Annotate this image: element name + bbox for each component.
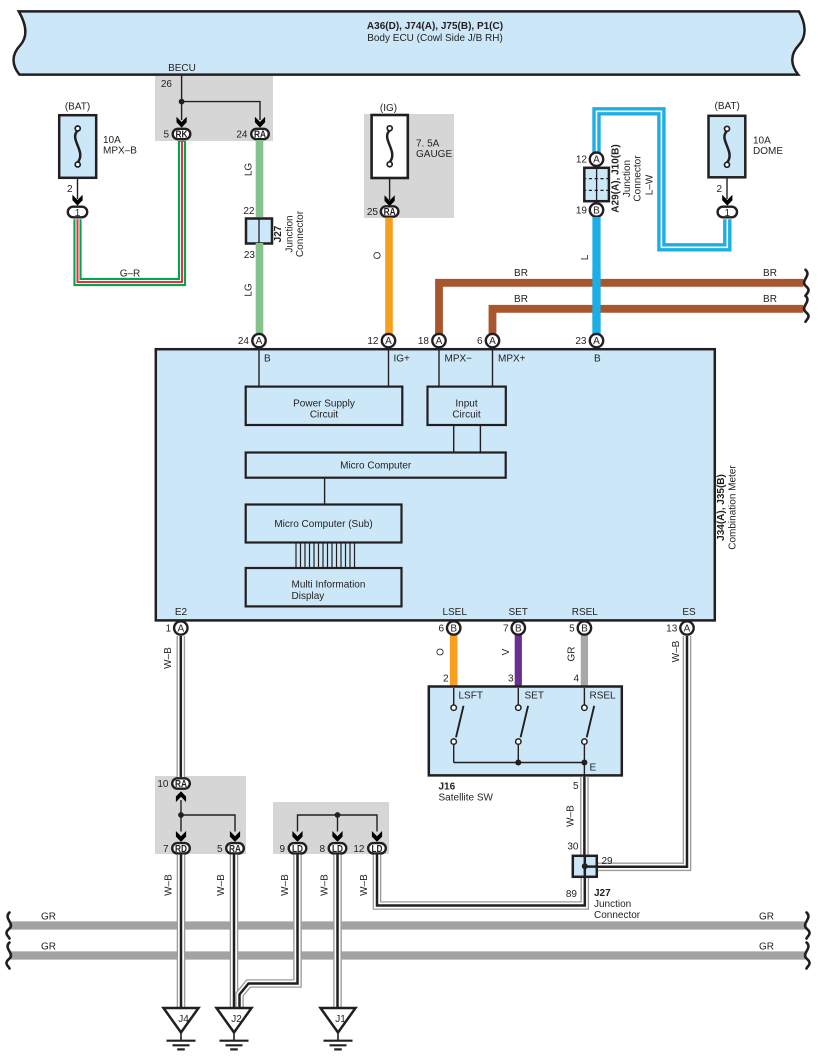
internal wire 12 to power supply	[388, 349, 390, 388]
svg-text:6: 6	[477, 336, 483, 347]
wire V to satellite switch	[515, 635, 522, 687]
svg-text:LD: LD	[292, 844, 303, 855]
svg-text:5: 5	[217, 844, 223, 855]
svg-text:7: 7	[163, 844, 169, 855]
wire GR bus upper	[11, 921, 805, 929]
svg-text:GR: GR	[759, 942, 774, 953]
svg-text:GR: GR	[41, 942, 56, 953]
splice RA pin 5	[217, 843, 244, 855]
svg-text:Connector: Connector	[594, 910, 641, 921]
wire GR bus lower	[11, 951, 805, 959]
svg-text:W–B: W–B	[359, 874, 370, 896]
splice LD pin 8	[319, 843, 346, 855]
svg-text:A: A	[489, 336, 496, 347]
wire W-B from RD7 to ground J4	[177, 855, 186, 1010]
svg-text:6: 6	[438, 624, 444, 635]
internal wire 18 to input circuit	[438, 349, 440, 388]
fuse 10A MPX-B	[59, 102, 137, 178]
satellite switch J16	[429, 687, 622, 804]
svg-text:BR: BR	[514, 268, 528, 279]
svg-text:(BAT): (BAT)	[65, 102, 90, 113]
svg-text:RSEL: RSEL	[590, 691, 617, 702]
shaded junction-block background (BECU area)	[155, 75, 273, 141]
wire W-B from ES to J27	[598, 636, 687, 867]
wire from BECU to splice	[181, 75, 183, 120]
pin 24 A (meter)	[238, 334, 266, 347]
svg-text:A29(A), J10(B): A29(A), J10(B)	[611, 144, 622, 212]
svg-text:Junction: Junction	[622, 160, 633, 197]
svg-text:2: 2	[716, 184, 722, 195]
svg-text:Power Supply: Power Supply	[293, 399, 355, 410]
svg-text:O: O	[436, 648, 447, 656]
switch RSEL	[582, 688, 616, 763]
svg-text:Display: Display	[292, 591, 325, 602]
multi information display block	[246, 568, 402, 606]
arrow into LD12	[372, 831, 382, 842]
ground J4	[164, 1008, 199, 1049]
svg-text:7: 7	[503, 624, 509, 635]
svg-text:Combination Meter: Combination Meter	[728, 465, 739, 550]
svg-text:23: 23	[575, 336, 587, 347]
svg-text:RA: RA	[384, 207, 396, 218]
svg-text:A: A	[684, 624, 691, 635]
splice LD pin 9	[279, 843, 306, 855]
ground J1	[321, 1008, 356, 1049]
arrow into connector 1	[72, 195, 82, 206]
svg-text:E: E	[590, 763, 597, 774]
wire O (orange)	[385, 218, 393, 336]
arrow into RA5	[230, 831, 240, 842]
input circuit block	[428, 387, 506, 425]
svg-text:A: A	[436, 336, 443, 347]
svg-text:Multi Information: Multi Information	[292, 580, 366, 591]
splice RA pin 25	[367, 206, 399, 218]
pin 12 A (meter)	[367, 334, 395, 347]
svg-text:J34(A), J35(B): J34(A), J35(B)	[716, 474, 727, 541]
arrow into RA25	[385, 195, 395, 206]
svg-text:MPX+: MPX+	[498, 354, 526, 365]
arrow up into RA10	[176, 791, 186, 802]
junction node (LD splice)	[335, 812, 341, 818]
internal wire 24 to power supply	[258, 349, 260, 388]
pin 13 A (meter ES)	[666, 621, 694, 634]
svg-text:Micro Computer (Sub): Micro Computer (Sub)	[274, 519, 372, 530]
svg-text:BR: BR	[763, 268, 777, 279]
svg-text:29: 29	[602, 856, 614, 867]
svg-text:GR: GR	[41, 912, 56, 923]
pin 2 of DOME fuse	[716, 177, 727, 199]
svg-text:4: 4	[573, 674, 579, 685]
svg-text:B: B	[515, 624, 522, 635]
svg-text:W–B: W–B	[566, 805, 577, 827]
svg-text:3: 3	[508, 674, 514, 685]
svg-text:8: 8	[319, 844, 325, 855]
pin 1 A (meter E2)	[165, 621, 187, 634]
svg-text:Connector: Connector	[295, 210, 306, 257]
common bus of J16	[454, 762, 585, 764]
pin 19 B (junction connector)	[576, 203, 603, 216]
svg-text:A: A	[385, 336, 392, 347]
svg-text:Body ECU (Cowl Side J/B RH): Body ECU (Cowl Side J/B RH)	[367, 33, 503, 44]
shaded background around LD splice (bottom right)	[273, 802, 389, 854]
svg-text:Connector: Connector	[633, 155, 644, 202]
svg-text:LSEL: LSEL	[442, 607, 467, 618]
svg-text:B: B	[593, 206, 600, 217]
svg-text:O: O	[373, 251, 384, 259]
svg-text:J16: J16	[439, 782, 456, 793]
svg-text:LD: LD	[332, 844, 343, 855]
wire L (blue)	[592, 217, 600, 335]
LD splice crossbar (gray area right)	[298, 815, 378, 832]
bus A36 Body ECU band	[14, 11, 805, 74]
svg-text:B: B	[581, 624, 588, 635]
svg-text:MPX–B: MPX–B	[103, 146, 137, 157]
switch SET	[516, 688, 544, 763]
svg-text:DOME: DOME	[753, 146, 783, 157]
pin 2 of fuse	[67, 179, 78, 200]
svg-text:23: 23	[244, 250, 256, 261]
svg-text:J27: J27	[273, 225, 284, 242]
svg-text:L–W: L–W	[645, 174, 656, 195]
svg-text:Circuit: Circuit	[452, 410, 481, 421]
svg-text:B: B	[594, 354, 601, 365]
branch wire to RA5	[181, 815, 235, 832]
arrow into LD8	[332, 831, 342, 842]
svg-text:LSFT: LSFT	[459, 691, 483, 702]
switch LSFT	[451, 688, 483, 763]
wire branch to pin 24	[182, 102, 260, 120]
svg-text:5: 5	[569, 624, 575, 635]
arrow into RD7	[176, 831, 186, 842]
svg-text:SET: SET	[525, 691, 544, 702]
svg-text:10A: 10A	[753, 136, 771, 147]
svg-text:Junction: Junction	[594, 899, 631, 910]
svg-text:10: 10	[157, 779, 169, 790]
svg-text:BECU: BECU	[168, 63, 196, 74]
pin 12 A (junction connector)	[576, 153, 603, 166]
svg-text:2: 2	[443, 674, 449, 685]
internal wires input to micro computer	[454, 425, 481, 453]
continuation curl GR upper right	[805, 913, 809, 939]
wire BR lower	[493, 309, 804, 335]
junction node	[179, 99, 185, 105]
svg-text:J27: J27	[594, 888, 611, 899]
svg-text:9: 9	[279, 844, 285, 855]
wire LG lower	[256, 243, 264, 335]
svg-text:A36(D), J74(A), J75(B), P1(C): A36(D), J74(A), J75(B), P1(C)	[367, 21, 503, 32]
connector 1 (MPX-B)	[68, 207, 87, 219]
svg-text:ES: ES	[682, 607, 696, 618]
svg-text:(BAT): (BAT)	[715, 101, 740, 112]
svg-text:J2: J2	[231, 1014, 242, 1025]
svg-text:19: 19	[576, 206, 588, 217]
svg-text:5: 5	[573, 781, 579, 792]
svg-text:Input: Input	[455, 399, 477, 410]
splice RK pin 5	[163, 129, 190, 141]
svg-text:BR: BR	[514, 294, 528, 305]
svg-text:7. 5A: 7. 5A	[416, 139, 440, 150]
svg-text:(IG): (IG)	[380, 103, 397, 114]
svg-text:J1: J1	[335, 1014, 346, 1025]
svg-text:Junction: Junction	[285, 215, 296, 252]
svg-text:W–B: W–B	[280, 874, 291, 896]
svg-text:V: V	[501, 648, 512, 655]
svg-text:30: 30	[567, 842, 579, 853]
svg-text:24: 24	[238, 336, 250, 347]
svg-text:MPX−: MPX−	[445, 354, 473, 365]
wire O to satellite switch	[450, 635, 458, 687]
arrow into RK	[177, 117, 187, 128]
svg-text:A: A	[593, 155, 600, 166]
svg-text:IG+: IG+	[394, 354, 411, 365]
splice RA pin 24	[236, 129, 268, 141]
internal wire E to pin 5	[583, 763, 585, 778]
power supply circuit block	[246, 387, 403, 425]
svg-text:RK: RK	[176, 130, 189, 141]
fuse 10A DOME	[709, 101, 784, 177]
splice LD pin 12	[353, 843, 385, 855]
svg-text:G–R: G–R	[120, 269, 141, 280]
svg-text:GR: GR	[567, 647, 578, 662]
fuse 7.5A GAUGE	[372, 103, 453, 178]
svg-text:25: 25	[367, 207, 379, 218]
svg-text:W–B: W–B	[320, 874, 331, 896]
micro computer (sub) block	[246, 505, 402, 543]
micro computer block	[246, 453, 506, 478]
junction connector A29(A) J10(B)	[583, 144, 644, 212]
svg-text:13: 13	[666, 624, 678, 635]
wire BR upper	[439, 283, 803, 335]
continuation curl GR upper left	[6, 913, 10, 939]
svg-text:18: 18	[418, 336, 430, 347]
junction node (RA splice)	[178, 812, 184, 818]
svg-text:24: 24	[236, 130, 248, 141]
pin 5 B (meter RSEL)	[569, 621, 591, 634]
continuation curl BR lower	[804, 296, 808, 322]
internal wire 6 to input circuit	[492, 349, 494, 388]
svg-text:BR: BR	[763, 294, 777, 305]
internal wire micro computer to sub	[324, 478, 326, 505]
svg-text:2: 2	[67, 184, 73, 195]
connector 1 (DOME)	[718, 207, 737, 219]
svg-text:1: 1	[165, 624, 171, 635]
svg-text:E2: E2	[175, 607, 188, 618]
svg-text:LG: LG	[244, 283, 255, 297]
svg-text:1: 1	[75, 208, 81, 219]
svg-text:GR: GR	[759, 912, 774, 923]
junction connector J27 (22/23)	[243, 206, 306, 261]
pin 6 A (meter)	[477, 334, 499, 347]
shaded background around IG fuse	[364, 114, 454, 218]
svg-text:Circuit: Circuit	[310, 410, 339, 421]
splice RA pin 10 feed (gray area left)	[180, 800, 182, 832]
wire W-B from J27 89 to LD12	[377, 855, 585, 906]
svg-text:J4: J4	[178, 1014, 189, 1025]
svg-text:LD: LD	[372, 844, 383, 855]
combination meter J34/J35	[156, 349, 739, 620]
wire L over BR	[592, 270, 600, 335]
svg-text:12: 12	[353, 844, 365, 855]
svg-text:A: A	[256, 336, 263, 347]
wire W-B from LD9 to ground J2	[240, 855, 298, 1010]
wire GR to satellite switch	[581, 635, 588, 687]
pin line of IG fuse	[389, 178, 391, 200]
continuation curl BR upper	[804, 270, 808, 296]
svg-text:Micro Computer: Micro Computer	[340, 461, 412, 472]
svg-text:RD: RD	[175, 844, 187, 855]
wire W-B from LD8 to ground J1	[333, 855, 342, 1010]
svg-text:89: 89	[566, 889, 578, 900]
splice RD pin 7	[163, 843, 190, 855]
svg-text:Satellite SW: Satellite SW	[439, 793, 494, 804]
svg-text:A: A	[593, 336, 600, 347]
pin 6 B (meter LSEL)	[438, 621, 460, 634]
continuation curl GR lower left	[6, 943, 10, 969]
wire W-B from E2	[177, 636, 186, 777]
pin 23 A (meter)	[575, 334, 603, 347]
pin 18 A (meter)	[418, 334, 446, 347]
svg-text:22: 22	[243, 206, 255, 217]
svg-text:B: B	[450, 624, 457, 635]
svg-text:26: 26	[161, 79, 173, 90]
svg-text:LG: LG	[244, 163, 255, 177]
shaded background around RA/RD splice (bottom left)	[155, 776, 246, 854]
ground J2	[217, 1008, 252, 1049]
svg-text:RSEL: RSEL	[572, 607, 599, 618]
arrow into LD9	[292, 831, 302, 842]
ribbon hatch between sub and display	[296, 543, 355, 569]
svg-text:RA: RA	[175, 779, 187, 790]
wire LG upper	[256, 140, 264, 217]
svg-text:RA: RA	[254, 130, 266, 141]
wire G-R	[78, 141, 183, 282]
svg-text:W–B: W–B	[216, 874, 227, 896]
svg-text:12: 12	[367, 336, 379, 347]
svg-text:L: L	[580, 254, 591, 260]
splice RA pin 10	[157, 778, 189, 790]
junction node (SET)	[515, 760, 521, 766]
svg-text:SET: SET	[508, 607, 527, 618]
svg-text:W–B: W–B	[163, 647, 174, 669]
svg-text:GAUGE: GAUGE	[416, 149, 452, 160]
arrow into RA24	[255, 117, 265, 128]
arrow into connector 1 (DOME)	[722, 195, 732, 206]
junction node E	[581, 760, 587, 766]
continuation curl GR lower right	[805, 943, 809, 969]
svg-text:RA: RA	[229, 844, 241, 855]
wire W-B from J16 E to J27	[580, 777, 589, 855]
svg-text:1: 1	[725, 208, 731, 219]
svg-text:10A: 10A	[103, 135, 121, 146]
wire W-B from RA5 to ground J2	[230, 855, 239, 1010]
junction connector J27 (29/30/89)	[566, 855, 641, 921]
svg-text:12: 12	[576, 155, 588, 166]
svg-text:W–B: W–B	[671, 640, 682, 662]
pin 7 B (meter SET)	[503, 621, 525, 634]
svg-text:5: 5	[163, 130, 169, 141]
svg-text:A: A	[177, 624, 184, 635]
svg-text:B: B	[264, 354, 271, 365]
svg-text:W–B: W–B	[164, 874, 175, 896]
wire L-W	[597, 111, 728, 247]
